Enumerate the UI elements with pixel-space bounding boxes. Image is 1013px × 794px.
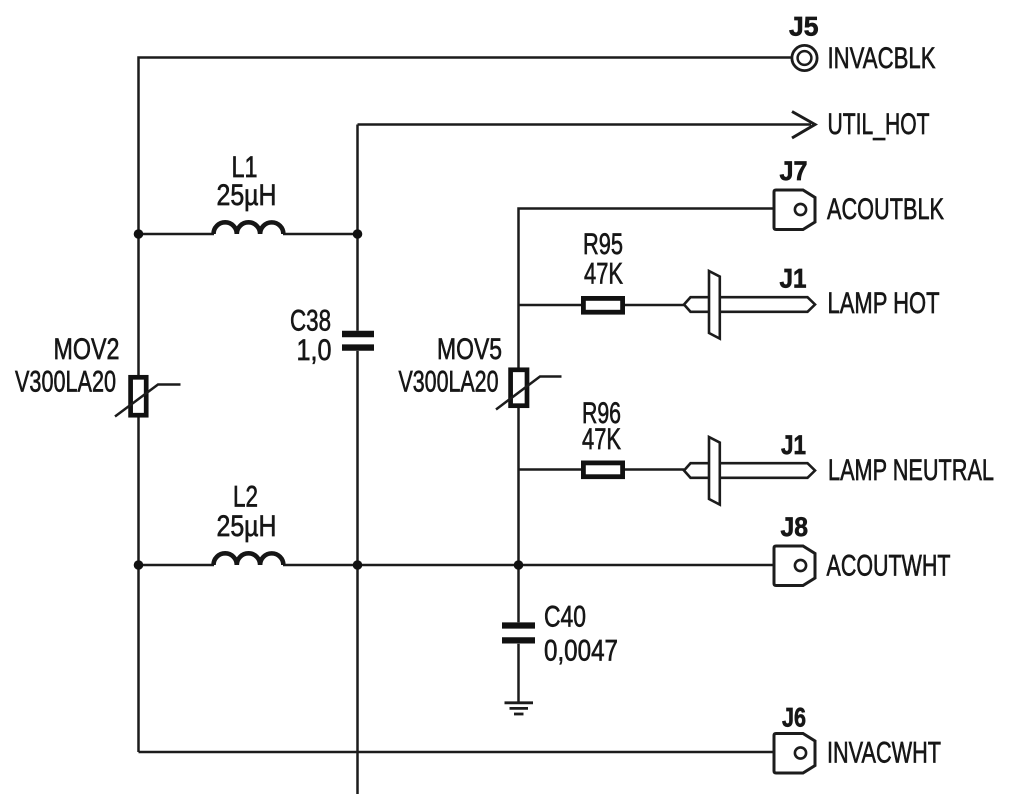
- svg-text:1,0: 1,0: [297, 334, 332, 367]
- svg-text:INVACWHT: INVACWHT: [827, 737, 941, 770]
- svg-text:25µH: 25µH: [217, 179, 277, 212]
- svg-text:25µH: 25µH: [217, 510, 277, 543]
- svg-text:J5: J5: [789, 12, 819, 42]
- svg-text:0,0047: 0,0047: [544, 635, 618, 668]
- svg-text:J7: J7: [780, 156, 808, 186]
- svg-text:R95: R95: [583, 228, 623, 261]
- svg-text:J1: J1: [780, 264, 807, 294]
- svg-text:J1: J1: [781, 430, 806, 460]
- svg-text:UTIL_HOT: UTIL_HOT: [828, 108, 930, 141]
- svg-text:47K: 47K: [582, 423, 621, 456]
- svg-text:ACOUTBLK: ACOUTBLK: [827, 193, 944, 226]
- svg-text:V300LA20: V300LA20: [15, 366, 116, 399]
- svg-text:LAMP HOT: LAMP HOT: [828, 287, 940, 320]
- svg-text:MOV5: MOV5: [437, 333, 502, 366]
- svg-text:L2: L2: [233, 481, 258, 514]
- svg-text:C38: C38: [290, 305, 331, 338]
- svg-text:V300LA20: V300LA20: [399, 366, 499, 399]
- svg-text:J6: J6: [782, 703, 806, 733]
- svg-text:ACOUTWHT: ACOUTWHT: [827, 550, 951, 583]
- svg-text:INVACBLK: INVACBLK: [828, 42, 936, 75]
- svg-text:LAMP NEUTRAL: LAMP NEUTRAL: [828, 454, 994, 487]
- svg-text:C40: C40: [544, 601, 586, 634]
- svg-text:47K: 47K: [584, 258, 623, 291]
- svg-text:J8: J8: [781, 512, 809, 542]
- svg-text:MOV2: MOV2: [54, 333, 120, 366]
